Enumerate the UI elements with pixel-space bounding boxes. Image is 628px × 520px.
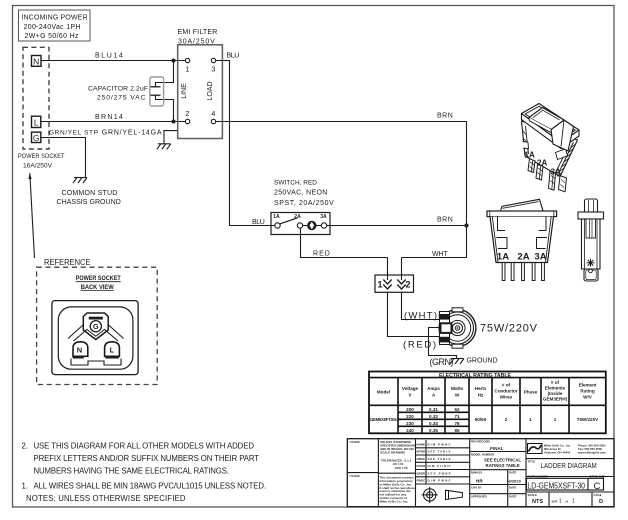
svg-text:PWDC: PWDC bbox=[417, 479, 426, 483]
svg-text:POWER SOCKET: POWER SOCKET bbox=[18, 153, 65, 160]
svg-text:62: 62 bbox=[454, 407, 460, 412]
svg-text:Hertz: Hertz bbox=[475, 386, 487, 391]
svg-text:2.: 2. bbox=[22, 441, 29, 450]
svg-text:(WHT): (WHT) bbox=[404, 310, 437, 321]
svg-text:LINE: LINE bbox=[181, 83, 188, 99]
svg-text:BRN: BRN bbox=[437, 217, 453, 224]
svg-text:CAGE: CAGE bbox=[594, 493, 602, 497]
svg-text:1.: 1. bbox=[22, 482, 29, 491]
svg-text:SEE ELECTRICAL: SEE ELECTRICAL bbox=[484, 458, 521, 463]
svg-text:230: 230 bbox=[406, 421, 414, 426]
svg-text:1A: 1A bbox=[497, 251, 509, 262]
svg-text:6/2019: 6/2019 bbox=[509, 478, 522, 483]
svg-text:3A: 3A bbox=[534, 251, 546, 262]
svg-text:NAME: NAME bbox=[417, 442, 426, 446]
svg-text:GRN/YEL-14GA: GRN/YEL-14GA bbox=[102, 130, 162, 137]
svg-text:D: D bbox=[599, 499, 603, 505]
svg-text:50/60: 50/60 bbox=[475, 417, 487, 422]
svg-text:Wires: Wires bbox=[500, 395, 513, 400]
svg-text:3A: 3A bbox=[551, 168, 561, 177]
svg-text:Phase: Phase bbox=[524, 390, 538, 395]
svg-text:N: N bbox=[33, 56, 39, 66]
svg-text:W/V: W/V bbox=[583, 395, 593, 400]
svg-text:LOAD: LOAD bbox=[207, 81, 214, 100]
svg-text:NTS: NTS bbox=[532, 499, 543, 505]
svg-text:FINAL: FINAL bbox=[490, 446, 504, 451]
svg-text:HR: HR bbox=[476, 479, 483, 484]
svg-text:SWITCH, RED: SWITCH, RED bbox=[274, 179, 317, 186]
svg-text:2: 2 bbox=[505, 417, 508, 422]
svg-text:DATE: DATE bbox=[509, 495, 517, 499]
svg-text:3: 3 bbox=[211, 65, 215, 74]
svg-text:(RED): (RED) bbox=[403, 340, 436, 351]
svg-text:2W+G 50/60 Hz: 2W+G 50/60 Hz bbox=[25, 33, 80, 40]
svg-text:W: W bbox=[455, 393, 460, 398]
svg-text:2A: 2A bbox=[517, 251, 529, 262]
svg-text:1: 1 bbox=[559, 498, 562, 504]
svg-text:1: 1 bbox=[554, 417, 557, 422]
svg-text:PREFIX LETTERS AND/OR SUFFIX N: PREFIX LETTERS AND/OR SUFFIX NUMBERS ON … bbox=[34, 454, 260, 463]
svg-text:N: N bbox=[77, 345, 82, 354]
svg-text:of: of bbox=[565, 500, 568, 504]
svg-text:L: L bbox=[110, 345, 115, 354]
svg-text:CHASSIS GROUND: CHASSIS GROUND bbox=[57, 199, 122, 206]
svg-text:CHK BY: CHK BY bbox=[471, 485, 482, 489]
svg-text:DATE: DATE bbox=[509, 485, 517, 489]
svg-text:QNDR: QNDR bbox=[417, 471, 426, 475]
svg-text:2A: 2A bbox=[537, 159, 547, 168]
svg-text:Rating: Rating bbox=[580, 389, 594, 394]
svg-text:ELECTRICAL RATING TABLE: ELECTRICAL RATING TABLE bbox=[439, 373, 512, 379]
svg-text:Hz: Hz bbox=[478, 393, 484, 398]
svg-text:DIM PWNC: DIM PWNC bbox=[428, 442, 451, 446]
svg-text:SPST, 20A/250V: SPST, 20A/250V bbox=[274, 200, 334, 207]
svg-text:75W/220V: 75W/220V bbox=[577, 417, 599, 422]
svg-text:C: C bbox=[594, 481, 601, 492]
svg-text:LD-GEM5XSFT-30: LD-GEM5XSFT-30 bbox=[528, 481, 586, 490]
svg-text:www.millergrills.com: www.millergrills.com bbox=[577, 450, 606, 454]
svg-text:1A: 1A bbox=[525, 151, 535, 160]
svg-text:NUMBERS HAVING THE SAME ELECTR: NUMBERS HAVING THE SAME ELECTRICAL RATIN… bbox=[34, 467, 230, 476]
svg-text:85: 85 bbox=[454, 428, 460, 433]
svg-text:1: 1 bbox=[185, 65, 189, 74]
svg-text:TITLE: TITLE bbox=[528, 460, 536, 464]
svg-text:2A: 2A bbox=[294, 214, 301, 220]
svg-text:LTR DESC: LTR DESC bbox=[350, 474, 361, 478]
svg-text:DIM PWNC: DIM PWNC bbox=[428, 479, 451, 483]
svg-text:250VAC, NEON: 250VAC, NEON bbox=[274, 190, 328, 197]
svg-text:1: 1 bbox=[572, 498, 575, 504]
svg-text:2: 2 bbox=[185, 109, 189, 118]
svg-text:RATINGS TABLE: RATINGS TABLE bbox=[486, 463, 520, 468]
svg-text:WHT: WHT bbox=[432, 251, 449, 258]
svg-text:1A: 1A bbox=[273, 214, 280, 220]
svg-text:.XXX ±.05: .XXX ±.05 bbox=[394, 466, 408, 470]
svg-text:BRN: BRN bbox=[437, 113, 453, 120]
svg-text:SCALE: SCALE bbox=[528, 493, 538, 497]
svg-text:V: V bbox=[408, 393, 412, 398]
svg-text:COMMON STUD: COMMON STUD bbox=[62, 190, 118, 197]
svg-text:240: 240 bbox=[406, 428, 414, 433]
svg-text:Watts: Watts bbox=[451, 386, 464, 391]
svg-text:Model: Model bbox=[377, 390, 390, 395]
svg-text:A: A bbox=[432, 393, 436, 398]
svg-text:SEE TABLE: SEE TABLE bbox=[428, 457, 451, 461]
svg-text:BLU: BLU bbox=[227, 53, 240, 60]
svg-text:MTRD: MTRD bbox=[417, 450, 426, 454]
svg-text:Miller Grills Co., Inc.: Miller Grills Co., Inc. bbox=[380, 499, 409, 503]
svg-text:0.31: 0.31 bbox=[429, 407, 438, 412]
svg-text:CAPACITOR 2.2uF: CAPACITOR 2.2uF bbox=[88, 85, 148, 92]
svg-text:EMI FILTER: EMI FILTER bbox=[178, 29, 218, 36]
svg-text:BLU14: BLU14 bbox=[95, 53, 123, 60]
svg-text:SHT: SHT bbox=[552, 500, 558, 504]
svg-text:GEM5X5FT30s: GEM5X5FT30s bbox=[370, 417, 398, 422]
svg-text:AMPDNC: AMPDNC bbox=[417, 457, 426, 461]
svg-text:# of: # of bbox=[551, 380, 560, 385]
svg-text:ALL WIRES SHALL BE MIN 18AWG P: ALL WIRES SHALL BE MIN 18AWG PVC/UL1015 … bbox=[34, 482, 267, 491]
svg-text:(Inside: (Inside bbox=[548, 391, 563, 396]
svg-text:RED: RED bbox=[313, 250, 330, 257]
svg-text:0.35: 0.35 bbox=[429, 428, 438, 433]
svg-text:# of: # of bbox=[502, 383, 511, 388]
svg-text:220: 220 bbox=[406, 414, 414, 419]
svg-text:75W/220V: 75W/220V bbox=[480, 322, 538, 334]
svg-text:USE THIS DIAGRAM FOR ALL OTHER: USE THIS DIAGRAM FOR ALL OTHER MODELS WI… bbox=[34, 441, 255, 450]
svg-text:BACK VIEW: BACK VIEW bbox=[81, 284, 114, 291]
svg-text:Amps: Amps bbox=[427, 386, 440, 391]
svg-text:Anytown, OH 44444: Anytown, OH 44444 bbox=[544, 450, 571, 454]
svg-text:Conductor: Conductor bbox=[494, 389, 517, 394]
svg-text:Voltage: Voltage bbox=[402, 386, 419, 391]
svg-text:200-240Vac 1PH: 200-240Vac 1PH bbox=[24, 24, 81, 31]
svg-text:LTR DESC: LTR DESC bbox=[350, 440, 361, 444]
svg-text:250/275 VAC: 250/275 VAC bbox=[97, 95, 146, 102]
svg-text:GEM3ERH): GEM3ERH) bbox=[543, 396, 568, 401]
svg-text:GROUND: GROUND bbox=[467, 356, 499, 365]
svg-text:16A/250V: 16A/250V bbox=[23, 162, 53, 169]
svg-text:DATE: DATE bbox=[509, 470, 517, 474]
svg-text:BRN14: BRN14 bbox=[95, 114, 123, 121]
svg-text:MODEL NUMBER: MODEL NUMBER bbox=[471, 453, 494, 457]
svg-text:Elements: Elements bbox=[545, 385, 566, 390]
svg-text:71: 71 bbox=[454, 414, 460, 419]
svg-text:DWN BY: DWN BY bbox=[471, 470, 482, 474]
svg-text:REFERENCE: REFERENCE bbox=[44, 257, 91, 267]
svg-text:4: 4 bbox=[211, 109, 215, 118]
svg-text:LADDER DIAGRAM: LADDER DIAGRAM bbox=[541, 461, 597, 470]
svg-text:SEE PWNE: SEE PWNE bbox=[428, 471, 451, 475]
svg-text:1: 1 bbox=[529, 417, 532, 422]
svg-text:REV RECORD: REV RECORD bbox=[471, 440, 490, 444]
svg-text:0.34: 0.34 bbox=[429, 421, 438, 426]
svg-text:3A: 3A bbox=[320, 214, 327, 220]
svg-text:L: L bbox=[34, 117, 39, 127]
svg-text:SEE TABLE: SEE TABLE bbox=[428, 450, 451, 454]
svg-text:DIM CLINIC: DIM CLINIC bbox=[428, 464, 451, 468]
svg-text:78: 78 bbox=[454, 421, 460, 426]
svg-text:200: 200 bbox=[406, 407, 414, 412]
svg-text:GRN/YEL STP: GRN/YEL STP bbox=[49, 130, 98, 137]
svg-text:FNSH: FNSH bbox=[417, 464, 426, 468]
svg-text:POWER SOCKET: POWER SOCKET bbox=[76, 275, 121, 282]
svg-text:2: 2 bbox=[406, 279, 411, 289]
svg-text:Element: Element bbox=[579, 383, 597, 388]
svg-text:0.32: 0.32 bbox=[429, 414, 438, 419]
svg-text:G: G bbox=[33, 133, 40, 143]
svg-text:G: G bbox=[93, 322, 99, 331]
svg-text:SCALE DRAWING: SCALE DRAWING bbox=[380, 450, 406, 454]
svg-text:INCOMING POWER: INCOMING POWER bbox=[22, 15, 88, 22]
svg-text:NOTES: UNLESS OTHERWISE SPECIF: NOTES: UNLESS OTHERWISE SPECIFIED bbox=[26, 494, 186, 503]
svg-text:APPROVED: APPROVED bbox=[471, 495, 487, 499]
svg-text:1: 1 bbox=[378, 279, 383, 289]
svg-text:BLU: BLU bbox=[252, 219, 265, 226]
svg-text:(GRN): (GRN) bbox=[430, 357, 454, 367]
